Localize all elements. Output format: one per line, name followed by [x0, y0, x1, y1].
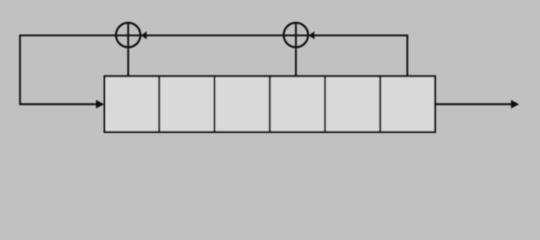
wire: XOR U1 to XOR U2	[140, 34, 284, 36]
wire: bottom horizontal into register input	[19, 103, 98, 105]
arrowhead into XOR U2 right side	[309, 32, 315, 40]
arrowhead at output end	[511, 100, 519, 109]
cell divider 2	[214, 76, 216, 132]
output wire from register right edge	[435, 103, 512, 105]
cell divider 4	[324, 76, 326, 132]
feedback wire: top horizontal from left corner to XOR U1	[20, 34, 117, 36]
wire: tap from cell 1 up to XOR U1	[127, 47, 129, 76]
arrowhead into register input	[96, 100, 104, 109]
wire: left vertical feedback drop	[19, 35, 21, 105]
wire: XOR U2 to top-right corner	[308, 34, 408, 36]
cell divider 1	[158, 76, 160, 132]
op XOR gate U1 (circle-plus)	[116, 23, 140, 47]
op XOR gate U2 (circle-plus)	[284, 23, 308, 47]
wire: right vertical tap from cell 6 up to feedback line	[406, 35, 408, 77]
arrowhead into XOR U1 right side	[141, 32, 147, 40]
cell divider 3	[269, 76, 271, 132]
cell divider 5	[379, 76, 381, 132]
wire: tap from cell 4 up to XOR U2	[295, 47, 297, 76]
shift register body (6 cells)	[105, 76, 436, 132]
